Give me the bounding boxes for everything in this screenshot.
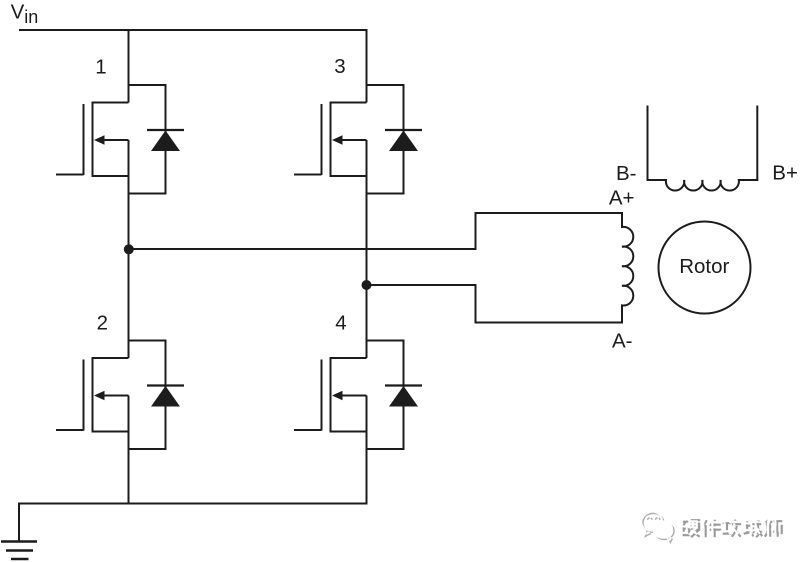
transistor 4 (low-side right NMOS with body diode) bbox=[294, 341, 422, 450]
transistor 2 (low-side left NMOS with body diode) bbox=[56, 341, 184, 450]
rotor circle bbox=[659, 222, 751, 314]
svg-text:A+: A+ bbox=[609, 186, 635, 209]
winding A (motor phase A coil with leads from both bridge outputs) bbox=[129, 213, 634, 323]
watermark logo highlight layer bbox=[641, 512, 672, 541]
svg-text:A-: A- bbox=[612, 330, 633, 353]
transistor 1 (high-side left NMOS with body diode) bbox=[56, 85, 184, 194]
svg-text:B+: B+ bbox=[772, 162, 798, 185]
svg-text:4: 4 bbox=[335, 312, 346, 335]
char 硬 bbox=[679, 518, 698, 535]
ground rail wire (with transistor 4 source drop) bbox=[19, 449, 367, 541]
char 城 bbox=[744, 520, 763, 537]
char 狮 bbox=[764, 520, 782, 537]
svg-text:Rotor: Rotor bbox=[679, 255, 729, 278]
transistor 3 (high-side right NMOS with body diode) bbox=[294, 85, 422, 194]
wire: right half-bridge mid vertical (T3 source to T4 drain) bbox=[366, 194, 368, 341]
junction node dot (right bridge output) bbox=[362, 280, 372, 290]
svg-text:3: 3 bbox=[334, 55, 345, 78]
junction node dot (left bridge output) bbox=[124, 244, 134, 254]
char 硬 bbox=[682, 520, 701, 537]
watermark logo shadow layer (two chat bubbles) bbox=[643, 513, 674, 542]
wire: transistor 2 source to ground rail bbox=[128, 449, 130, 504]
watermark text shadow layer (硬件攻城狮 simplified strokes, gray drop shadow) bbox=[682, 520, 783, 538]
ground symbol bbox=[1, 542, 37, 560]
svg-text:B-: B- bbox=[616, 162, 637, 185]
winding B (motor phase B coil, open leads) bbox=[648, 106, 758, 191]
char 攻 bbox=[723, 520, 742, 537]
char 攻 bbox=[720, 517, 739, 534]
wire: transistor 1 drain to Vin rail bbox=[128, 30, 130, 85]
wire: left half-bridge mid vertical (T1 source to T2 drain) bbox=[128, 194, 130, 341]
Vin power rail bbox=[19, 30, 367, 85]
watermark text highlight layer (white emboss overlay) bbox=[679, 517, 780, 535]
svg-text:2: 2 bbox=[97, 312, 108, 335]
svg-text:Vin: Vin bbox=[11, 0, 39, 27]
char 狮 bbox=[762, 518, 780, 535]
char 件 bbox=[701, 517, 719, 535]
char 件 bbox=[703, 520, 721, 538]
char 城 bbox=[741, 518, 760, 535]
svg-text:1: 1 bbox=[95, 56, 106, 79]
